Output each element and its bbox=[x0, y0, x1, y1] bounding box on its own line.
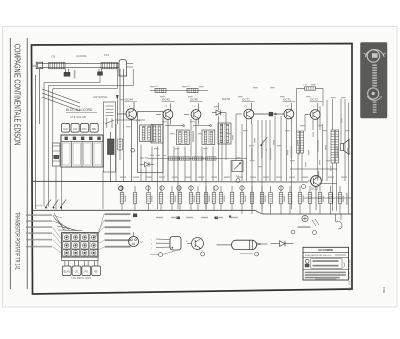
earphone jack bbox=[291, 214, 342, 235]
AF gain switch contact bbox=[260, 137, 267, 151]
svg-text:OC72: OC72 bbox=[310, 97, 318, 101]
svg-text:BE: BE bbox=[92, 127, 96, 131]
svg-text:BLAN: BLAN bbox=[64, 270, 71, 273]
loudspeaker bbox=[341, 140, 350, 155]
svg-text:FREQUENCE MF 480 Kc/s: FREQUENCE MF 480 Kc/s bbox=[305, 255, 333, 257]
AVC link wires bbox=[165, 125, 211, 127]
label BLOC D ACCORD bbox=[66, 108, 97, 119]
supply bus upper bbox=[33, 180, 308, 183]
legend diode symbol bbox=[271, 241, 294, 247]
trimmer capacitor under L1 bbox=[64, 69, 75, 79]
svg-text:ACCORDE: ACCORDE bbox=[318, 248, 333, 252]
supply bus lower right bbox=[255, 210, 352, 214]
sub-rail with series resistors bbox=[148, 155, 247, 160]
svg-text:OC71: OC71 bbox=[283, 97, 291, 101]
wire from rod right end down to tuning gang bbox=[116, 69, 146, 120]
driver transformer bbox=[297, 131, 304, 153]
transistor Q6 OC72 output bbox=[305, 97, 323, 124]
svg-text:CTE 504-AB: CTE 504-AB bbox=[70, 115, 86, 119]
wire from rod left end to frame bbox=[32, 65, 37, 67]
svg-text:OC71: OC71 bbox=[242, 97, 250, 101]
tiny value labels above bus bbox=[120, 177, 347, 178]
connector wire labels right bbox=[94, 213, 131, 250]
rotated label beside T2 bbox=[192, 131, 194, 142]
transistor Q3 OC45 IF amp 2 bbox=[184, 97, 203, 181]
tiny labels under lower bus bbox=[156, 217, 238, 218]
svg-text:T B: T B bbox=[244, 106, 248, 108]
ferrite rod antenna bbox=[36, 59, 133, 76]
transistor Q1 OC44 converter bbox=[117, 97, 137, 181]
svg-text:C.E. 504 TR 141 SCHEMA: C.E. 504 TR 141 SCHEMA bbox=[348, 259, 351, 291]
sidebar rule right bbox=[26, 38, 28, 289]
transistor Q5 OC71 driver bbox=[283, 97, 296, 124]
svg-text:GO: GO bbox=[63, 127, 68, 131]
fan wires into connector bbox=[53, 213, 82, 231]
svg-text:T B: T B bbox=[127, 106, 131, 108]
svg-text:TRANSISTOR PORTATIF TR 141: TRANSISTOR PORTATIF TR 141 bbox=[13, 212, 20, 270]
svg-text:OA70: OA70 bbox=[222, 97, 230, 101]
detector transformer T3 bbox=[218, 123, 231, 144]
svg-text:M: M bbox=[141, 240, 143, 244]
waveband push keys GO CO PO BE bbox=[62, 124, 99, 133]
top supply rail bbox=[150, 90, 208, 92]
DIN socket bbox=[129, 232, 143, 247]
svg-text:T B: T B bbox=[164, 106, 168, 108]
junction node bbox=[183, 125, 185, 127]
svg-text:T B: T B bbox=[311, 106, 315, 108]
legend electrolytic capacitor bbox=[217, 240, 268, 256]
svg-text:OC72: OC72 bbox=[311, 187, 318, 191]
inspection stamp box ACCORDE bbox=[303, 247, 349, 280]
left vertical wire bundle to switch bbox=[44, 83, 53, 207]
rotated value labels along wires bbox=[251, 140, 348, 205]
antenna coil L1 (CADRE winding) bbox=[49, 62, 66, 68]
svg-text:PO: PO bbox=[85, 270, 89, 273]
feedback resistor R20 bbox=[297, 85, 324, 107]
svg-text:CTE RECU 4X93: CTE RECU 4X93 bbox=[71, 276, 92, 280]
svg-text:}: } bbox=[343, 262, 345, 268]
tuning gang enclosure bbox=[104, 102, 116, 172]
svg-text:PO: PO bbox=[82, 127, 87, 131]
nested antenna return wires bbox=[44, 69, 133, 89]
tuner block drop wire bbox=[61, 167, 63, 210]
svg-text:COMPAGNIE CONTINENTALE EDISON: COMPAGNIE CONTINENTALE EDISON bbox=[12, 44, 20, 145]
svg-text:OC45: OC45 bbox=[190, 97, 198, 101]
svg-text:OC44: OC44 bbox=[125, 97, 133, 101]
component blobs under bus bbox=[177, 216, 232, 220]
vertical wires to supply bus bbox=[103, 99, 349, 214]
test point callout circles bbox=[119, 186, 283, 190]
IF transformer T0 (first) bbox=[151, 125, 163, 144]
resistor row above lower bus bbox=[120, 186, 344, 214]
trimmer capacitor under L2 bbox=[98, 69, 103, 76]
svg-text:BLOC D'ACCORD: BLOC D'ACCORD bbox=[66, 108, 93, 112]
svg-text:CO: CO bbox=[75, 270, 79, 273]
schematic border frame bbox=[32, 44, 353, 295]
svg-text:CADRE: CADRE bbox=[76, 54, 87, 58]
supply bus lower left bbox=[33, 209, 255, 211]
svg-text:F10: F10 bbox=[104, 53, 110, 57]
transistor Q7 OC72 output 2 bbox=[301, 171, 351, 210]
wire bundle diagonal leads bbox=[42, 89, 80, 111]
on-off switch contacts on bus bbox=[36, 200, 66, 209]
svg-text:CB: CB bbox=[51, 55, 55, 59]
test point A1 bbox=[118, 186, 122, 190]
resistor R3 on rail bbox=[155, 86, 166, 92]
connector keys BLAN CO PO BE bbox=[62, 266, 100, 276]
battery/keyboard connector block bbox=[62, 233, 99, 261]
Continental Edison logo plate bbox=[361, 43, 388, 119]
oscillator coil block bbox=[138, 112, 164, 173]
svg-text:BE: BE bbox=[94, 270, 98, 273]
transistor Q4 OC71 AF preamp bbox=[236, 97, 255, 124]
IF transformer T2 bbox=[202, 130, 215, 145]
IF transformer T1 bbox=[176, 130, 189, 145]
svg-text:CO: CO bbox=[73, 127, 78, 131]
junction node bbox=[210, 125, 212, 127]
antenna coil L2 winding bbox=[101, 62, 118, 68]
oscillator trimmer box bbox=[53, 143, 61, 210]
svg-text:T B: T B bbox=[192, 106, 196, 108]
sidebar rule left bbox=[9, 38, 11, 289]
svg-text:ANTENNE: ANTENNE bbox=[93, 95, 107, 99]
svg-text:8961: 8961 bbox=[382, 286, 386, 293]
tuning block CTE 504 (keyboard tuner) bbox=[61, 135, 103, 167]
legend transistor package bbox=[150, 237, 181, 257]
transistor Q2 OC45 IF amp 1 bbox=[156, 97, 175, 181]
label ANTENNE with arrow bbox=[93, 95, 119, 124]
svg-text:A +9V: A +9V bbox=[36, 205, 43, 208]
svg-text:T B: T B bbox=[285, 106, 289, 108]
svg-text:c: c bbox=[151, 240, 152, 242]
connector key stems bbox=[65, 261, 98, 266]
legend transistor symbol bbox=[186, 237, 205, 256]
IF coil can (dark) bbox=[108, 132, 115, 181]
component blob under bus left bbox=[133, 214, 137, 218]
diode OA70 detector bbox=[140, 156, 154, 167]
volume potentiometer bbox=[232, 161, 243, 183]
resistor R7 on rail bbox=[187, 86, 198, 92]
wire from rod left end down bbox=[36, 69, 40, 209]
coupling capacitor C20 (dark) bbox=[254, 112, 284, 116]
wire segment right link bbox=[290, 168, 337, 170]
detector diode OA70 bbox=[212, 97, 230, 126]
miscellaneous tiny value labels (texture) bbox=[120, 84, 350, 171]
output transformer bbox=[331, 130, 339, 163]
svg-text:OC45: OC45 bbox=[162, 97, 170, 101]
connector wire labels left bbox=[26, 214, 62, 253]
